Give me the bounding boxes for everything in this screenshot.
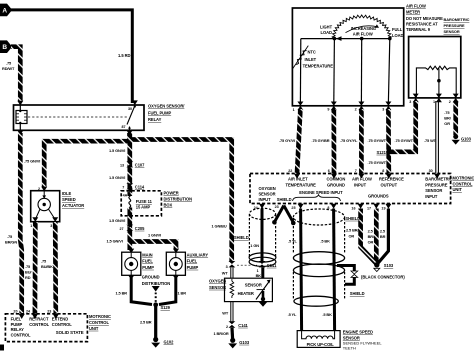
svg-text:2: 2 (355, 107, 357, 111)
svg-text:C205: C205 (135, 226, 145, 231)
svg-text:SENSOR: SENSOR (259, 192, 276, 197)
relay switch contact 30-87 (127, 107, 135, 125)
svg-text:CONTROL: CONTROL (453, 181, 473, 186)
label power distribution box (164, 190, 193, 207)
svg-text:27: 27 (120, 227, 124, 231)
svg-text:24: 24 (26, 309, 31, 313)
wire: relay 87 branch left to idle speed actuator (44, 133, 129, 187)
svg-text:S103: S103 (384, 263, 394, 268)
svg-text:2.5 BR: 2.5 BR (140, 320, 152, 325)
wire 1 GN/VI branch to auxiliary pump (130, 242, 176, 251)
svg-text:PRESSURE: PRESSURE (444, 23, 465, 28)
svg-text:BR/: BR/ (444, 116, 451, 121)
svg-text:.75 WT: .75 WT (424, 138, 437, 143)
svg-text:RESISTANCE AT: RESISTANCE AT (406, 22, 438, 27)
relay dashed actuation link (28, 116, 128, 118)
svg-text:.75 GY/WT: .75 GY/WT (368, 160, 387, 165)
AFM wiper line with arrow (301, 36, 392, 41)
svg-text:1.5 GN/VI: 1.5 GN/VI (109, 175, 125, 180)
svg-text:20: 20 (13, 309, 17, 313)
svg-text:30: 30 (128, 107, 132, 111)
wire .75 GY/WT AFM pin3 to S121 and motronic pin8 (386, 109, 391, 174)
svg-text:COMMON: COMMON (327, 177, 346, 182)
svg-text:PICK UP-COIL: PICK UP-COIL (307, 342, 335, 347)
svg-text:.5 BK: .5 BK (320, 239, 330, 244)
svg-text:3: 3 (409, 100, 411, 104)
ground distribution bus: arrow + dotted link (152, 286, 160, 303)
svg-text:OR: OR (368, 240, 374, 245)
connector C141 (signal) (257, 261, 278, 273)
svg-text:MOTRONIC: MOTRONIC (89, 314, 111, 319)
pick-up coil (297, 331, 340, 348)
svg-text:3: 3 (382, 107, 384, 111)
svg-text:22: 22 (288, 169, 292, 173)
svg-text:WT: WT (222, 271, 229, 276)
connector C205 pin 27 (120, 225, 146, 231)
wire .75 GY/YL AFM pin2 to motronic pin7 (359, 109, 364, 174)
svg-text:OR: OR (444, 121, 450, 126)
svg-text:SENSOR: SENSOR (209, 285, 226, 290)
wire into main pump (127, 243, 132, 250)
svg-text:CONTROL: CONTROL (89, 320, 109, 325)
svg-text:CONTROL: CONTROL (52, 322, 72, 327)
svg-text:HEATER: HEATER (238, 291, 254, 296)
svg-text:POWER: POWER (164, 190, 179, 195)
svg-text:AIR FLOW: AIR FLOW (406, 4, 426, 9)
label engine speed sensor (343, 330, 383, 351)
svg-text:FUEL PUMP: FUEL PUMP (148, 110, 171, 115)
svg-text:1.5 BR: 1.5 BR (116, 291, 128, 296)
label oxygen sensor/fuel pump relay (148, 104, 185, 123)
wire 2.5 BR/OR pin17 to S103 (374, 209, 379, 264)
svg-text:2.5: 2.5 (368, 229, 374, 234)
svg-text:RD: RD (25, 275, 31, 280)
svg-text:S129: S129 (161, 305, 171, 310)
wire 1.5 BR main pump to S129 (131, 278, 152, 305)
wire WT heater return (222, 302, 233, 322)
svg-text:NTC: NTC (308, 50, 316, 55)
label barometric pressure sensor (444, 17, 470, 34)
svg-text:(BLACK CONNECTOR): (BLACK CONNECTOR) (361, 275, 405, 280)
svg-text:SENSOR: SENSOR (425, 188, 442, 193)
svg-text:BOX: BOX (164, 202, 173, 207)
svg-text:7: 7 (122, 185, 124, 189)
wire 2.5 BR pin19 to S103 (377, 209, 388, 265)
connector arrow A (0, 4, 12, 17)
svg-text:1.5 GN/VI: 1.5 GN/VI (109, 218, 125, 223)
svg-text:INLET: INLET (305, 57, 317, 62)
relay coil (16, 111, 27, 124)
splice S129 (153, 302, 170, 310)
wire relay coil .75 BR/GN down to motronic pin 20 (20, 133, 21, 314)
wire .75 RD/WT from B to relay coil (11, 47, 20, 101)
svg-text:BU/BK: BU/BK (41, 264, 53, 269)
svg-text:RD/WT: RD/WT (2, 66, 15, 71)
power distribution box (dashed) (121, 191, 161, 216)
svg-text:15 AMP: 15 AMP (136, 205, 151, 210)
svg-text:1 BR/OR: 1 BR/OR (214, 331, 229, 336)
svg-text:.75 GN/VI: .75 GN/VI (24, 159, 40, 164)
svg-text:GROUND: GROUND (327, 182, 345, 187)
AFM bottom pin bowties (293, 102, 392, 113)
svg-text:OUTPUT: OUTPUT (381, 182, 398, 187)
label oxygen sensor (209, 279, 226, 290)
svg-text:.75 GY/WT: .75 GY/WT (395, 138, 414, 143)
NTC inlet temperature sensor (296, 51, 306, 65)
svg-text:TEETH: TEETH (343, 345, 356, 350)
svg-text:S121: S121 (377, 150, 387, 155)
svg-text:GROUNDS: GROUNDS (368, 194, 389, 199)
svg-text:TERMINAL 9: TERMINAL 9 (406, 27, 431, 32)
svg-text:BR: BR (380, 234, 386, 239)
bottom pin arrows (254, 204, 392, 211)
pin arrow top coil (17, 101, 23, 106)
svg-text:3: 3 (50, 224, 52, 228)
svg-text:2: 2 (449, 100, 451, 104)
svg-text:.75 GY/BR: .75 GY/BR (312, 138, 330, 143)
svg-text:FUEL: FUEL (187, 259, 198, 264)
svg-text:8: 8 (382, 169, 384, 173)
svg-text:OXYGEN SENSOR/: OXYGEN SENSOR/ (148, 104, 185, 109)
svg-text:ENGINE SPEED: ENGINE SPEED (343, 330, 373, 335)
svg-text:UNIT: UNIT (453, 187, 463, 192)
svg-text:MOTRONIC: MOTRONIC (453, 176, 474, 181)
svg-text:6: 6 (328, 169, 330, 173)
svg-text:G103: G103 (461, 136, 472, 141)
svg-text:1 GN: 1 GN (250, 243, 259, 248)
svg-text:INPUT: INPUT (425, 194, 438, 199)
svg-text:BAROMETRIC: BAROMETRIC (425, 177, 452, 182)
motronic control unit (main, dashed) (250, 174, 451, 204)
pin arrow top 30 (132, 100, 138, 105)
svg-text:9: 9 (327, 107, 329, 111)
wire .75 WT baro pin1 to motronic pin30 (white wire) (424, 101, 438, 174)
wire .5 YL (301, 209, 302, 331)
svg-text:SENSOR: SENSOR (444, 29, 460, 34)
auxiliary fuel pump (166, 249, 185, 280)
connector C141 (heater feed) pin 3 (226, 261, 257, 269)
wire: relay 87 right 1 GN/BU to oxygen sensor heater (130, 140, 232, 263)
pin arrow bottom coil (17, 130, 23, 135)
svg-text:1.5 RD: 1.5 RD (118, 53, 131, 58)
svg-text:B: B (2, 44, 7, 51)
svg-text:INCREASING: INCREASING (351, 26, 376, 31)
svg-text:1 GN/VI: 1 GN/VI (148, 232, 161, 237)
svg-text:DISTRIBUTION: DISTRIBUTION (164, 196, 193, 201)
shield split from pin 23 to both cable shields (272, 206, 296, 226)
svg-text:LIGHT: LIGHT (320, 24, 333, 29)
wire 2.5 BR to ground (154, 305, 157, 339)
wire 1 BR/OR to ground (230, 328, 234, 339)
svg-text:C107: C107 (135, 163, 145, 168)
svg-text:.75 GY/VI: .75 GY/VI (279, 138, 295, 143)
svg-text:C141: C141 (238, 323, 248, 328)
fuse 11 15 amp (129, 191, 153, 216)
svg-text:UNIT: UNIT (89, 326, 99, 331)
svg-text:23: 23 (47, 309, 51, 313)
svg-text:19: 19 (381, 207, 385, 211)
svg-text:FUSE 11: FUSE 11 (136, 199, 153, 204)
svg-text:WT: WT (222, 311, 229, 316)
main fuel pump (122, 249, 141, 280)
svg-text:IDLE: IDLE (62, 191, 71, 196)
relay K1: oxygen sensor / fuel pump relay (14, 100, 145, 135)
svg-text:OXYGEN: OXYGEN (209, 279, 226, 284)
svg-text:PUMP: PUMP (187, 265, 199, 270)
wire ISA pin3 .75 BU/BK down to motronic (53, 222, 58, 314)
svg-text:PUMP: PUMP (142, 265, 154, 270)
svg-text:4A: 4A (123, 194, 128, 198)
svg-text:30: 30 (429, 169, 433, 173)
svg-text:OR: OR (349, 233, 355, 238)
svg-text:1: 1 (433, 100, 435, 104)
motronic control unit (left, dashed) (5, 309, 87, 341)
svg-text:DISTRIBUTION: DISTRIBUTION (142, 281, 171, 286)
AFM pin risers (299, 39, 301, 102)
svg-text:SOLID STATE: SOLID STATE (56, 330, 84, 335)
svg-text:.75 GY/YL: .75 GY/YL (340, 138, 358, 143)
svg-text:INPUT: INPUT (354, 182, 367, 187)
svg-text:SHIELD: SHIELD (234, 235, 249, 240)
svg-text:TEMPERATURE: TEMPERATURE (303, 64, 334, 69)
svg-text:METER: METER (406, 10, 420, 15)
svg-text:3: 3 (226, 265, 228, 269)
svg-text:1.5 GN/VI: 1.5 GN/VI (109, 148, 125, 153)
increasing air flow arrow (346, 26, 378, 33)
svg-text:BK: BK (256, 273, 262, 278)
svg-text:A: A (2, 7, 7, 14)
wire 1 BR aux pump to S129 (159, 278, 176, 305)
wire .5 BK (334, 209, 335, 331)
svg-text:.75: .75 (444, 110, 450, 115)
ground G103 (oxygen heater) (228, 338, 250, 349)
svg-text:SENSOR: SENSOR (245, 283, 262, 288)
svg-text:G102: G102 (164, 339, 175, 344)
pin arrow bottom 87 (127, 130, 133, 135)
wire: relay 87 down 1.5 GN/VI (127, 133, 132, 196)
svg-text:23: 23 (275, 205, 279, 209)
svg-text:TEMPERATURE: TEMPERATURE (286, 182, 317, 187)
page mark bottom left (0, 345, 4, 351)
svg-text:CONTROL: CONTROL (29, 322, 49, 327)
motronic top labels (259, 177, 453, 203)
barometric pressure sensor box (409, 37, 461, 98)
svg-text:BR/: BR/ (368, 234, 375, 239)
svg-text:AIR INLET: AIR INLET (288, 177, 308, 182)
heater element (230, 279, 234, 298)
label main fuel pump (142, 252, 154, 269)
svg-text:BU/: BU/ (25, 270, 32, 275)
svg-text:ENGINE SPEED INPUT: ENGINE SPEED INPUT (299, 190, 343, 195)
svg-text:G103: G103 (239, 340, 250, 345)
sensor case ground (262, 291, 265, 302)
wire 2.5 BR/OR pin16 to S103 (361, 209, 377, 264)
wire .75 BR/OR baro pin2 to ground G103 (453, 101, 458, 135)
connector C107 pin 13 (120, 161, 145, 167)
svg-text:FULL: FULL (392, 27, 403, 32)
svg-text:SHIELD: SHIELD (277, 197, 292, 202)
ground G102 (151, 337, 174, 348)
wire .75 GY/BR AFM pin9 to motronic pin6 (331, 109, 336, 174)
label auxiliary fuel pump (187, 252, 209, 269)
svg-text:REFERENCE: REFERENCE (379, 177, 404, 182)
oxygen sensor box (225, 278, 273, 307)
svg-text:AUXILIARY: AUXILIARY (187, 252, 209, 257)
svg-text:INPUT: INPUT (259, 197, 272, 202)
svg-text:C141: C141 (267, 263, 277, 268)
svg-text:MAIN: MAIN (142, 252, 152, 257)
svg-text:.75: .75 (7, 234, 13, 239)
svg-text:SHIELD: SHIELD (345, 216, 360, 221)
svg-text:17: 17 (367, 207, 371, 211)
svg-text:2: 2 (226, 325, 228, 329)
wire .75 GY/WT baro pin3 to S121 (390, 101, 416, 152)
svg-text:PRESSURE: PRESSURE (425, 182, 447, 187)
svg-text:.75: .75 (6, 61, 12, 66)
label air flow meter (406, 4, 443, 32)
engine speed input brace (293, 195, 341, 201)
ground G103 (right) (452, 134, 472, 145)
ground distribution heading (142, 275, 171, 286)
svg-text:RELAY: RELAY (148, 117, 162, 122)
svg-text:1 BR: 1 BR (178, 291, 187, 296)
svg-text:.75: .75 (41, 258, 47, 263)
svg-text:OXYGEN: OXYGEN (259, 186, 276, 191)
svg-text:1: 1 (293, 108, 295, 112)
label motronic control unit (left) (89, 314, 111, 331)
svg-text:BAROMETRIC: BAROMETRIC (444, 17, 470, 22)
svg-text:GROUND: GROUND (142, 275, 160, 280)
ESS shield tab to connector (337, 266, 358, 285)
svg-text:2.5 BR/: 2.5 BR/ (346, 227, 360, 232)
svg-text:AIR FLOW: AIR FLOW (352, 177, 372, 182)
svg-text:.75 GY/WT: .75 GY/WT (368, 138, 387, 143)
idle speed actuator (30, 187, 60, 228)
wire BK to sensor (261, 268, 264, 279)
svg-text:ACTUATOR: ACTUATOR (62, 203, 84, 208)
AFM potentiometer track (zigzag arc) (332, 15, 391, 39)
top pin arrows (288, 169, 440, 179)
svg-text:BR/GN: BR/GN (5, 240, 17, 245)
svg-text:CONTROL: CONTROL (11, 332, 31, 337)
splice S121 (377, 149, 392, 155)
splice S103 with connector (374, 262, 394, 271)
air flow meter box (292, 8, 403, 106)
svg-text:.75: .75 (25, 264, 31, 269)
label idle speed actuator (62, 191, 84, 208)
wire ISA pin1 .75 BU/RD down to motronic (33, 222, 38, 314)
label motronic control unit (right) (453, 176, 474, 193)
svg-text:LOAD: LOAD (321, 30, 332, 35)
svg-text:SHIELD: SHIELD (350, 291, 365, 296)
svg-text:.5 BK: .5 BK (322, 312, 332, 317)
svg-text:.5 YL: .5 YL (288, 312, 297, 317)
svg-text:AIR FLOW: AIR FLOW (353, 31, 373, 36)
oxygen sensor cable shield (cylinder) (249, 208, 276, 266)
svg-text:1 GN/BU: 1 GN/BU (212, 224, 227, 229)
svg-text:7: 7 (355, 169, 357, 173)
svg-text:87: 87 (122, 125, 126, 129)
wire .75 GY/VI AFM pin1 to motronic pin22 (297, 109, 300, 174)
wire 1.5 RD from A to relay terminal 30 (11, 10, 132, 103)
engine speed sensor cable shield (upper cylinder) (293, 209, 344, 306)
connector C141 (heater return) pin 2 (226, 321, 249, 329)
svg-text:1: 1 (30, 224, 32, 228)
svg-text:2: 2 (38, 187, 40, 191)
svg-text:DO NOT MEASURE: DO NOT MEASURE (406, 16, 443, 21)
svg-text:13: 13 (120, 163, 124, 167)
barometric potentiometer (416, 66, 456, 97)
connector C114 pin 7 (122, 183, 145, 189)
wire WT into heater (222, 268, 233, 279)
svg-text:FUEL: FUEL (142, 259, 153, 264)
svg-text:.5 YL: .5 YL (288, 239, 297, 244)
connector arrow B (0, 40, 12, 53)
svg-text:SPEED: SPEED (62, 197, 76, 202)
svg-text:16: 16 (351, 207, 355, 211)
svg-text:C114: C114 (135, 184, 145, 189)
svg-text:LOAD: LOAD (392, 33, 403, 38)
barometric bottom pin bowties (409, 94, 459, 105)
svg-text:25: 25 (291, 206, 295, 210)
svg-text:2.5: 2.5 (380, 229, 386, 234)
svg-text:1.5 GN/VI: 1.5 GN/VI (107, 239, 123, 244)
wire 1 GN oxygen signal (261, 209, 264, 262)
